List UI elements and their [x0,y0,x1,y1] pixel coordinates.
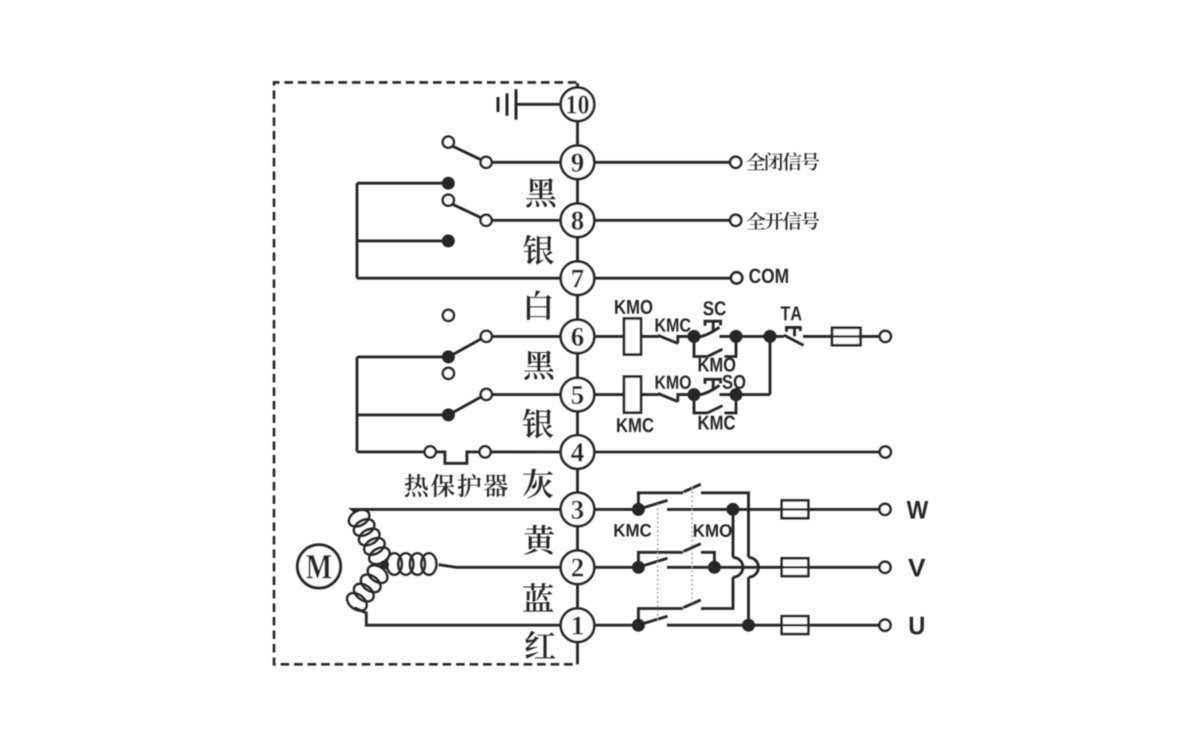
open-signal terminal [730,215,741,226]
wire winding to terminal 3 line [352,509,560,512]
crossover hop path C [733,557,743,577]
line terminal W [879,504,890,515]
label SO [722,375,745,389]
closed-signal terminal [730,157,741,168]
label KMC contact row6 [656,318,691,331]
node row3 left [632,503,645,516]
fuse FU1 body [782,500,809,518]
wire terminal 1 left segment [594,624,638,627]
terminal 5 [561,378,595,412]
wire path C upper [732,509,735,557]
label wire colour yellow [524,525,554,555]
wire bus to S5 node [357,413,448,416]
label wire colour blue [523,583,553,612]
limit switch S8 pivot [443,195,454,206]
label open signal [747,212,820,230]
wire terminal 5 to coil KMC [594,393,624,396]
terminal 7 [561,261,595,295]
node row6 b [730,330,743,343]
thermal protector right terminal [480,446,491,457]
wire terminal bus [576,83,579,664]
line terminal V [879,562,890,573]
terminal 8 [561,204,595,238]
contact KMO path C [638,577,733,625]
wire bus to S6 node [357,355,448,358]
wire node b to node c [736,335,770,338]
spare contact above S6 [443,310,454,321]
limit contact SO blade [700,385,720,395]
motor M1 letter [306,555,331,578]
line terminal U [879,620,890,631]
wire common bus lower [356,357,359,452]
node row6 c [764,330,777,343]
coil KMO [624,319,641,355]
motor winding bottom coil [344,562,391,615]
label wire colour silver lower [523,409,553,439]
motor star point [380,560,389,569]
wire fuse FU2 to V [808,566,879,569]
label KMC coil [617,418,653,432]
wire row2 middle [667,566,714,569]
wire S6 to terminal 6 [492,335,561,338]
node row5 a [688,388,701,401]
wire bus to node S8 [357,239,448,242]
limit switch S9 pivot [443,137,454,148]
wire bus to thermal protector [357,450,425,453]
terminal 3 [561,493,595,527]
wire S5 to terminal 5 [492,393,561,396]
switch S5 node [442,408,455,421]
line terminal row6 [880,331,891,342]
label TA [781,306,802,320]
contact KMO parallel row6 [694,336,736,356]
switch S5 contact [481,389,492,400]
wire fuse to line terminal [861,335,880,338]
switch S6 contact [481,331,492,342]
wire row2 to fuse [714,566,781,569]
wire path A lower [747,577,750,625]
label wire colour white [527,290,551,320]
wire winding to terminal 2 line [439,565,561,568]
wire terminal 4 to line terminal [594,451,879,454]
limit contact SC actuator [705,321,721,331]
node row6 a [688,330,701,343]
wire row3 middle [667,508,733,511]
terminal 2 [561,551,595,585]
wire SC to node b [720,335,737,338]
label wire colour silver upper [523,235,553,265]
label SC [703,301,726,315]
wire terminal 8 to open-signal [594,219,730,222]
label KMO power [694,524,732,537]
thermal protector element [436,452,480,463]
fuse FU2 body [782,558,809,576]
motor M1 body [297,545,340,588]
switch S6 node [442,350,455,363]
label wire colour red [525,631,555,659]
mechanical link KMO [691,487,693,604]
label KMO contact row5 [656,376,691,389]
wire thermal protector to terminal 4 [491,450,561,453]
coil KMC [624,377,641,413]
node S8 common [442,234,455,247]
wire terminal 3 left segment [594,508,638,511]
node S9 common [442,177,455,190]
wire S8 to terminal 8 [492,219,561,222]
fuse FU2 element [782,566,809,568]
thermal contact TA actuator [787,327,801,336]
label COM [749,269,788,284]
contact KMC parallel row5 [694,395,736,413]
COM terminal [731,272,742,283]
contact KMO path B [638,544,714,568]
label KMO parallel row6 [699,358,736,372]
contact KMO path A [638,484,748,557]
terminal 6 [561,320,595,354]
terminal 9 [561,146,595,180]
wire bus to node S9 [357,182,448,185]
wire terminal 9 to closed-signal [594,161,730,164]
contact KMC blade row3 [641,500,668,508]
wire node b5 right [736,393,770,396]
switch S6 blade [453,338,482,354]
wire terminal 6 to coil KMO [594,335,624,338]
dashed enclosure border [274,82,577,664]
wire bus to terminal 7 [357,277,561,280]
node row5 b [730,388,743,401]
node row1 left [632,619,645,632]
label W [907,501,928,519]
motor winding right coil [387,553,437,575]
label wire colour black lower [524,350,553,379]
label V [908,559,925,577]
wire terminal 2 left segment [594,566,638,569]
fuse FU3 body [782,616,809,634]
contact KMC blade row2 [641,558,668,566]
fuse FU1 element [782,508,809,510]
terminal 1 [561,608,595,642]
thermal contact TA blade [770,335,804,345]
limit switch S9 blade [453,146,482,160]
limit switch S8 contact [481,215,492,226]
node row2 left [632,561,645,574]
fuse FU3 element [782,624,809,626]
label U [910,617,924,635]
thermal protector left terminal [425,446,436,457]
contact KMC NC blade row6 [658,335,688,343]
fuse FU4 body [832,328,861,345]
limit contact SO actuator [705,379,721,389]
node row2 right [708,561,721,574]
label KMC power [614,524,651,537]
mechanical link KMC [657,504,659,621]
wire coil KMO to contact KMC [641,335,659,338]
terminal 4 [561,435,595,469]
wire fuse FU1 to W [808,508,879,511]
node row1 right [742,619,755,632]
node row3 right [726,503,739,516]
label wire colour black upper [526,178,555,207]
wire common bus upper [356,183,359,278]
wire TA to fuse [803,335,832,338]
label wire colour grey [523,469,553,499]
wire S9 to terminal 9 [492,161,561,164]
switch S5 blade [453,396,482,412]
terminal 10 [561,88,595,122]
contact KMC blade row1 [641,616,668,624]
wire ground to terminal 10 [518,103,561,106]
wire terminal 7 to COM [594,277,731,280]
wire row3 to fuse [733,508,782,511]
motor winding top coil [346,506,393,567]
spare contact above S5 [443,368,454,379]
wire row1 to fuse [749,624,782,627]
crossover hop path A [749,557,759,577]
wire coil KMC to contact KMO [641,393,659,396]
limit switch S8 blade [453,204,482,218]
label KMC parallel row5 [699,416,735,430]
wire row1 middle [667,624,749,627]
label thermal protector [405,474,508,497]
wire fuse FU3 to U [808,624,879,627]
line terminal row4 [880,446,891,457]
contact KMO NC blade row5 [658,394,688,402]
wire winding to terminal 1 line [354,608,560,625]
fuse FU4 element [832,335,861,337]
limit contact SC blade [700,327,720,337]
label closed signal [747,152,820,170]
limit switch S9 contact [481,157,492,168]
ground symbol [498,89,516,119]
wire row5 riser to row6 [769,336,772,394]
label KMO coil [615,300,652,314]
wire SO to node b5 [720,393,737,396]
